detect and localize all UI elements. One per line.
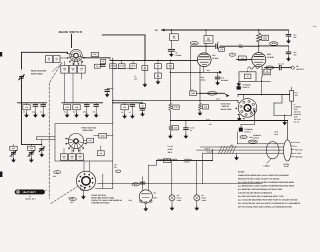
text TERMINAL STRIB B [253,134,262,139]
page edge mark [0,52,2,57]
svg-text:SWITCH: SWITCH [222,105,230,108]
junction C7 [157,60,158,61]
osc coil box [94,133,113,138]
resistor R7 box [190,88,201,95]
B- bus [170,120,287,122]
text TERMINAL STRIP A [242,83,251,88]
cap C12a to ground [286,30,296,44]
mech linkage diagonal [51,187,78,204]
svg-text:1/2 6U8: 1/2 6U8 [267,56,274,59]
coil L3B box [73,105,80,118]
front switch S1C [76,171,95,190]
wire AVC GRN-WH [200,93,229,97]
coil L2 box [69,66,77,74]
coil L1 box [61,66,69,74]
text TERMINAL STRIP B2 [184,158,193,163]
svg-text:RESISTOR NOTED CODES 1/2 WATT: RESISTOR NOTED CODES 1/2 WATT 10% RATING [238,178,280,181]
S1B box leads [64,148,80,154]
svg-text:STRIP A: STRIP A [242,86,249,89]
svg-text:C11 .05: C11 .05 [278,63,284,66]
svg-text:C15: C15 [89,139,92,142]
svg-text:OUTPUT: OUTPUT [296,68,305,71]
resistor chain x145 [142,60,148,87]
wire line4 down [98,153,262,183]
svg-text:WHT: WHT [275,133,279,136]
text REAR SECTION REAR VIEW [31,70,47,76]
label V2 [153,192,157,200]
svg-text:CABLE: CABLE [263,164,270,167]
svg-text:68: 68 [93,110,95,113]
junction plate [205,46,206,47]
svg-text:L5: L5 [102,60,104,63]
resistor R11 [257,30,269,46]
svg-text:2.7: 2.7 [80,69,82,72]
svg-text:REAR VIEW (FRONT SIDE): REAR VIEW (FRONT SIDE) [91,196,114,199]
copyright [68,197,73,200]
label RF OUTPUT [296,65,305,71]
S1C label [53,171,77,205]
page corner text [313,25,316,28]
svg-text:3-METER POSITIONS: 3-METER POSITIONS [91,202,110,205]
svg-text:47: 47 [40,110,42,113]
svg-text:470: 470 [220,48,223,51]
tube V1B [252,53,266,67]
svg-text:SOME NOTED WIRES ARE COLOR COD: SOME NOTED WIRES ARE COLOR CODED FOR THE… [238,174,290,177]
svg-text:ALL DENOTES VOLTAGE READING AT: ALL DENOTES VOLTAGE READING AT PIN NO TU… [238,188,283,191]
svg-text:.02: .02 [189,129,191,132]
V2 heater lead 2 [148,165,150,190]
page edge mark 2 [0,172,2,178]
svg-text:1/2 6U8: 1/2 6U8 [212,57,218,60]
text contacts note [91,194,122,205]
svg-text:MODEL CR-1: MODEL CR-1 [25,198,35,201]
osc cap box [84,138,94,143]
wire color oval GRN 2 [270,42,278,46]
svg-text:8: 8 [80,156,81,159]
V2 ground [143,204,148,212]
wire to function switch [238,94,290,99]
label C17 [114,163,117,168]
cable line 3 [197,148,284,151]
svg-text:NOTES:: NOTES: [238,171,245,174]
junction B+ choke [205,29,206,30]
B+ arrow [162,29,165,32]
svg-text:NO THIS POINT READ WITH 11 MEG: NO THIS POINT READ WITH 11 MEGOHM INPUT … [238,195,284,198]
svg-text:15: 15 [217,41,219,44]
junction grid V1B [258,45,259,46]
cable line 2 [201,144,284,147]
cap C6 box [130,60,137,68]
terminal strip dot [237,86,241,89]
plug pins [291,142,294,157]
svg-text:GRN-WH: GRN-WH [209,92,217,95]
text electrolytic [167,145,173,154]
capacitor C9 series [215,41,224,51]
wire grid GRN [191,45,259,47]
pilot lamp 2 [194,161,200,211]
svg-text:A-79: A-79 [206,118,210,121]
svg-text:CHOKE: CHOKE [206,40,213,43]
cap C2B [83,103,89,118]
cap C11 series [278,63,291,70]
svg-text:15: 15 [64,110,66,113]
svg-text:75: 75 [231,53,233,56]
bus to plug [275,121,288,140]
mech linkage dash [49,63,62,199]
svg-text:WHITE: WHITE [205,148,211,151]
switch S2 contact dot [253,110,255,112]
wire left vertical [21,52,23,144]
svg-text:.02: .02 [100,152,102,155]
cathode wire V1A [199,65,204,73]
svg-text:15: 15 [48,59,50,62]
svg-text:15: 15 [71,156,73,159]
cap C1B [40,103,46,118]
svg-text:.005: .005 [293,36,296,39]
svg-text:400: 400 [134,77,137,80]
trimmer C22 [10,144,18,162]
band switch S1A rear section [67,49,86,64]
wire color oval GRN [190,42,198,45]
T2 bottom wire [256,81,271,82]
svg-text:61959: 61959 [68,197,73,200]
svg-text:L6: L6 [121,111,123,114]
svg-text:C5 68: C5 68 [119,65,123,68]
wire color oval GRN-WH [207,91,217,95]
svg-text:.005: .005 [293,54,296,57]
junction [112,60,113,61]
label pilot lamp 1 [177,194,183,202]
cap C5 box [118,60,125,68]
label HTR [128,199,132,202]
label V1B [267,53,274,59]
label V1A [212,54,218,60]
band switch hub detail [71,51,80,60]
label L9 [134,75,137,80]
oval BLK [132,183,139,186]
script note [248,66,260,69]
choke L6 [204,30,213,53]
resistor R4 box [167,60,174,72]
svg-text:REAR VIEW: REAR VIEW [31,73,42,76]
wire RF bus [83,58,197,61]
svg-text:STRIP A: STRIP A [244,130,251,133]
lower tap bus [113,68,133,70]
heater bus [149,161,213,166]
cable line 4 [203,151,284,154]
svg-text:30: 30 [64,69,66,72]
badge caption [25,196,35,201]
switch S2 ground [237,114,242,121]
svg-text:150: 150 [83,110,86,113]
group C bus [112,102,142,103]
svg-text:FRONT SECTION: FRONT SECTION [91,194,106,197]
junction R4 [170,60,171,61]
S1C ground [81,191,86,200]
svg-text:33: 33 [142,104,144,107]
coil L6C box [121,103,128,119]
rf output jack [291,66,294,69]
switch left contact wires [60,57,68,59]
svg-text:FUNCTION: FUNCTION [221,103,231,106]
jumper note text [294,103,302,124]
S1B boxes [60,154,83,160]
S1C terminal [80,187,84,191]
label pilot lamp 2 [201,194,207,202]
svg-text:STRIP A: STRIP A [184,161,191,164]
terminal strip A2 dot [239,121,255,132]
text TERMINAL STRIP A2 [244,128,253,134]
svg-text:REAR SECTION: REAR SECTION [31,70,47,73]
svg-text:ALL VOLTAGES MEASURED FROM TES: ALL VOLTAGES MEASURED FROM TEST POINT TO… [238,199,298,202]
svg-text:V1A: V1A [212,54,216,57]
svg-text:V2: V2 [153,192,155,195]
trimmer C24 [39,147,45,158]
S1C right wires [96,161,113,189]
wire color oval YEL [266,66,274,69]
svg-text:50 - 60: 50 - 60 [294,121,299,124]
cap C16 to ground [184,121,195,139]
svg-text:PLUG: PLUG [284,165,290,168]
wire screen [259,46,289,52]
cathode coil L8 [262,66,271,94]
resistor R6 chain [190,46,192,91]
tube V2 base [139,190,152,204]
front switch S1B [65,133,86,151]
svg-text:400: 400 [143,67,146,70]
svg-text:.01: .01 [157,66,159,69]
osc box [55,124,113,161]
svg-text:REAR VIEW: REAR VIEW [221,108,232,111]
svg-text:STRIP B: STRIP B [253,136,260,139]
osc cap2 box [97,146,104,156]
svg-text:50 MMF: 50 MMF [175,54,181,57]
svg-text:GROUND: GROUND [295,156,303,159]
svg-text:REAR VIEW: REAR VIEW [83,129,93,132]
oval BLU [240,135,253,139]
svg-text:8.2: 8.2 [73,110,75,113]
svg-text:3 X 40: 3 X 40 [167,145,172,148]
svg-text:BAND SWITCH: BAND SWITCH [59,30,82,34]
oval small [116,170,121,173]
badge reg mark [46,189,48,192]
oscillator wire [112,97,238,101]
switch S2 lower lead [254,111,255,121]
svg-text:C23: C23 [30,147,33,150]
svg-text:CIRCLED VALUES SHOW DC READING: CIRCLED VALUES SHOW DC READINGS [238,192,273,195]
cap C7 box [155,60,162,68]
grid return V1B [237,43,252,60]
junction B+ R11 [258,29,259,30]
coil L5 box [101,59,106,63]
cable ellipse [266,142,279,159]
label B+ [155,29,159,32]
svg-text:YEL: YEL [268,66,271,69]
svg-text:GY B+: GY B+ [295,141,300,144]
cap C5C [140,103,146,117]
cap C3 box [94,64,105,68]
svg-text:ALL RESISTORS 1/2 WATT UNLESS: ALL RESISTORS 1/2 WATT UNLESS OTHERWISE … [238,185,295,188]
resistor R8 chain [198,72,209,116]
capacitor C8 [168,49,181,57]
cap C3B [93,103,99,118]
svg-text:(1MA): (1MA) [201,78,206,81]
svg-text:47: 47 [129,111,131,114]
svg-text:V1B: V1B [267,53,271,56]
svg-text:9-45: 9-45 [27,155,30,158]
cap C13 to ground [215,72,228,85]
resistor R3 [170,30,179,49]
coil L3 box [78,66,86,74]
svg-text:C6 33: C6 33 [131,65,135,68]
svg-text:C22: C22 [12,147,15,150]
svg-text:30: 30 [63,156,65,159]
svg-text:479: 479 [209,123,212,126]
wire antenna top [22,51,68,53]
text FRONT SECTION mid [81,127,96,130]
resistor R12 below bus [168,121,179,139]
notes block [238,171,301,209]
rf output wire [265,67,279,69]
svg-text:8.2: 8.2 [72,69,74,72]
electrolytic symbol [157,159,177,163]
cap stub [105,88,113,97]
leader line [71,34,73,47]
cap C1A [32,103,38,118]
svg-text:ALL CAPACITORS IN MMF UNLESS O: ALL CAPACITORS IN MMF UNLESS OTHERWISE S… [238,181,295,184]
cap C4C [129,103,135,119]
leads below boxes [65,73,82,103]
junction R3 [171,29,172,30]
junction2 [144,60,145,61]
svg-text:30: 30 [23,110,25,113]
label CABLE [263,159,271,168]
plug pin labels [295,141,303,159]
svg-text:CONTACTS 4 AND 8 GROUNDED IN: CONTACTS 4 AND 8 GROUNDED IN [91,199,122,202]
wafer links [84,161,90,171]
text AVC reading [201,76,206,81]
twist hatch [219,146,236,154]
svg-text:6.3 VAC: 6.3 VAC [295,152,302,155]
svg-text:TM: TM [29,196,31,198]
cable line 1 [237,132,283,144]
variable capacitor C1 [19,70,25,80]
group A bus [18,102,47,103]
octal plug [284,140,292,161]
text FRONT SECTION REAR VIEW [83,129,93,132]
svg-text:9-45: 9-45 [10,155,13,158]
svg-text:ALL VOLTAGES MAY VARY 20% DUE: ALL VOLTAGES MAY VARY 20% DUE TO TOLERAN… [238,202,301,205]
text FUNCTION SWITCH [221,103,232,111]
svg-text:GY-WH: GY-WH [250,140,256,143]
coil L2B box [63,105,70,118]
svg-text:C3: C3 [96,65,98,68]
svg-text:HEATHKIT: HEATHKIT [23,191,37,194]
B+ bus [162,29,289,31]
oval GY WHT [248,140,257,143]
svg-text:RED HTR: RED HTR [295,148,303,151]
pilot lamp 1 [169,161,175,211]
svg-text:T2: T2 [247,75,249,78]
cap C4 box [110,60,117,68]
group B bus [62,102,103,104]
function switch S2 [236,99,257,120]
svg-text:7-11: 7-11 [313,25,316,28]
svg-text:600 MMF: 600 MMF [221,79,228,82]
T2 ground [236,81,241,86]
wire plate V1B [258,46,260,52]
cap C12b to ground [286,51,296,61]
svg-text:47: 47 [56,59,58,62]
cable line4 ground [234,153,239,160]
V2 heater lead 1 [140,177,145,191]
coil L1A box [23,103,30,118]
resistor R2 box [91,52,98,56]
transformer T2 [239,70,256,81]
tube V1A [197,53,211,67]
trimmer boxes left of switch [46,56,61,63]
svg-text:WITH NO SIGNAL INPUT AND CONTR: WITH NO SIGNAL INPUT AND CONTROLS AT MIN… [238,206,293,209]
wire osc feed [102,35,145,61]
trimmer wires [22,137,56,147]
voltage oval V1B [229,53,235,56]
jumper ground [282,115,287,125]
heathkit badge [15,190,45,195]
wire cable junction down [212,150,214,161]
jumper loop [274,95,292,117]
svg-text:C13: C13 [123,106,126,109]
svg-text:C19: C19 [166,159,169,162]
resistor R5 box [155,69,162,85]
label OCTAL PLUG [283,163,290,168]
svg-text:2.5MH: 2.5MH [265,71,271,74]
group C feed [112,58,114,124]
svg-text:.02: .02 [241,57,243,60]
AVC line [170,69,222,74]
label BAND SWITCH [59,30,82,34]
svg-text:350 V: 350 V [168,151,173,154]
resistor R17 tall [290,87,299,101]
bus label [206,118,212,126]
trimmer C23 [27,144,35,162]
resistor R9 [169,72,180,120]
switch leads to boxes [65,62,82,66]
leader to rear section [53,63,63,72]
